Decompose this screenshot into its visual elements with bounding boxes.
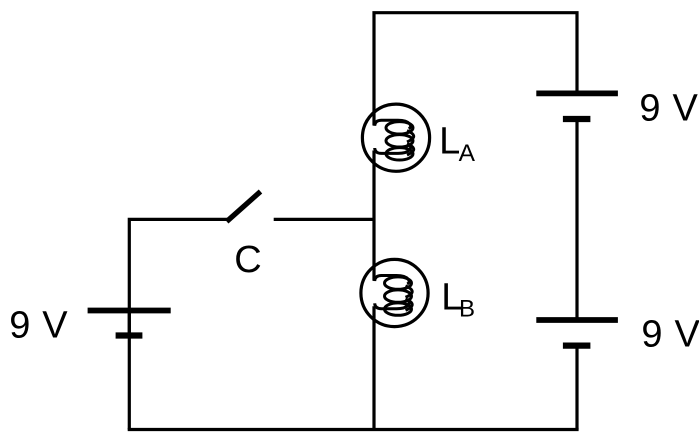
lamp LA filament coil turn 1	[386, 122, 413, 134]
svg-text:A: A	[459, 140, 476, 167]
lamp LA filament top lead hook	[375, 120, 411, 128]
lamp LA envelope circle	[362, 104, 429, 171]
wire top loop: middle node up, across, down right side to battery B1	[374, 13, 577, 126]
wire between battery B1 and battery B2	[575, 120, 578, 318]
battery B1 short plate	[563, 116, 591, 122]
lamp LB envelope circle	[361, 259, 428, 326]
wire left riser bottom to battery BL	[128, 311, 131, 430]
svg-text:9 V: 9 V	[641, 314, 699, 356]
wire between lamp LA and lamp LB	[372, 151, 375, 281]
battery B2 short plate	[563, 343, 591, 349]
lamp LA	[362, 104, 429, 171]
lamp LB	[361, 259, 428, 326]
lamp LB filament bottom lead hook	[375, 300, 409, 308]
svg-text:B: B	[459, 296, 475, 323]
lamp LA filament coil turn 3	[386, 148, 413, 160]
lamp LB filament coil turn 1	[385, 277, 412, 289]
lamp LB filament right connector 2	[406, 299, 413, 310]
switch C blade (open)	[227, 192, 261, 222]
battery B1 (top right) long plate	[536, 91, 618, 97]
lamp LB filament top lead hook	[375, 276, 409, 284]
lamp LA filament right connector 1	[407, 131, 414, 142]
svg-text:C: C	[234, 239, 261, 281]
wire battery BL up to switch row	[129, 219, 227, 335]
svg-text:L: L	[439, 120, 460, 162]
battery BL (left) long plate	[88, 308, 171, 314]
lamp LB filament right connector 1	[406, 286, 413, 297]
wire bottom rail	[128, 428, 579, 431]
wire battery B2 to bottom rail	[575, 346, 578, 430]
battery BL short plate	[116, 332, 143, 338]
svg-text:9 V: 9 V	[639, 88, 698, 130]
wire switch right contact to middle node	[274, 218, 374, 221]
battery B2 (bottom right) long plate	[536, 317, 618, 323]
lamp LA filament right connector 2	[407, 144, 414, 155]
wire below lamp LB to bottom rail	[372, 306, 375, 429]
lamp LA filament coil turn 2	[386, 135, 413, 147]
svg-text:9 V: 9 V	[9, 304, 68, 346]
lamp LB filament coil turn 2	[385, 290, 412, 302]
lamp LA filament bottom lead hook	[375, 145, 411, 153]
lamp LB filament coil turn 3	[385, 303, 412, 315]
